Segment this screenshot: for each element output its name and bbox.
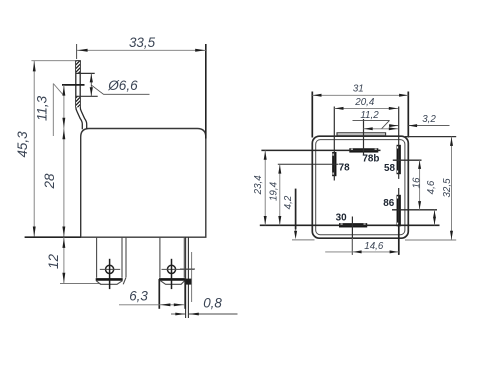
dimension 4,6 [426,180,437,225]
edge-on pin [180,237,195,318]
middle pin hole [167,265,175,273]
svg-text:11,2: 11,2 [360,110,379,121]
socket outline outer [312,136,408,238]
svg-text:78b: 78b [362,153,379,164]
svg-text:32,5: 32,5 [442,178,453,198]
pin 58 [397,145,401,174]
pin 78 [332,152,336,176]
pin 78 center lines [278,107,339,181]
svg-text:31: 31 [353,84,364,95]
svg-text:11,3: 11,3 [35,95,50,121]
dimension 12 [46,237,101,283]
left pin crosshair [100,259,120,289]
bracket hole center line [62,84,85,86]
dimension 19,4 [269,164,282,225]
svg-text:3,2: 3,2 [422,114,436,125]
svg-text:4,2: 4,2 [283,195,294,209]
socket top key [337,133,386,136]
left pin hole [106,265,114,273]
svg-text:20,4: 20,4 [354,97,375,108]
socket outline inner [316,140,405,235]
pin 30 [339,223,367,227]
bracket hatch lower [76,96,80,107]
svg-text:86: 86 [383,198,394,209]
body bottom extension line [25,236,81,238]
dimension 31 [312,84,408,138]
svg-text:12: 12 [46,254,61,269]
svg-text:4,6: 4,6 [426,180,437,194]
relay body outline [81,129,206,238]
dimension 11,2 [353,110,399,130]
bracket hole bottom edge [76,95,98,97]
svg-text:23,4: 23,4 [253,175,264,196]
dimension diameter 6,6 [90,73,150,96]
dimension 16 [411,160,422,210]
dimension 45,3 [15,61,75,238]
bracket hole top edge [76,72,95,74]
mounting bracket [75,61,87,130]
dimension 23,4 [253,150,267,225]
svg-text:0,8: 0,8 [203,296,222,311]
svg-text:Ø6,6: Ø6,6 [107,78,138,93]
dimension 6,3 [119,279,185,309]
pin 58 center lines [393,107,422,179]
dimension 32,5 [405,137,456,240]
middle pin blade [159,237,185,284]
dimension 14,6 [325,224,399,255]
svg-text:33,5: 33,5 [129,35,156,50]
svg-text:30: 30 [336,213,347,224]
dimension 3,2 [389,114,450,127]
svg-text:78: 78 [339,162,350,173]
pin 86 center lines [392,188,437,255]
middle pin crosshair [162,259,195,289]
svg-text:28: 28 [42,173,57,189]
pin 78b [349,148,378,152]
dimension 0,8 [171,296,238,316]
svg-text:6,3: 6,3 [129,289,148,304]
dimension 4,2 [283,189,314,240]
svg-text:45,3: 45,3 [15,131,30,158]
pin 78b center lines [261,119,380,156]
left pin blade [96,237,126,284]
dimension 28 [42,129,65,238]
pin 30 center lines [260,217,440,255]
pin 86 [397,195,401,227]
bracket hatch upper [76,61,80,73]
svg-text:14,6: 14,6 [364,241,384,252]
dimension 20,4 [334,97,398,110]
dimension 11,3 [35,84,66,137]
dimension 33,5 [77,35,206,139]
svg-text:58: 58 [384,163,395,174]
svg-text:19,4: 19,4 [269,181,280,201]
svg-text:16: 16 [411,177,422,188]
